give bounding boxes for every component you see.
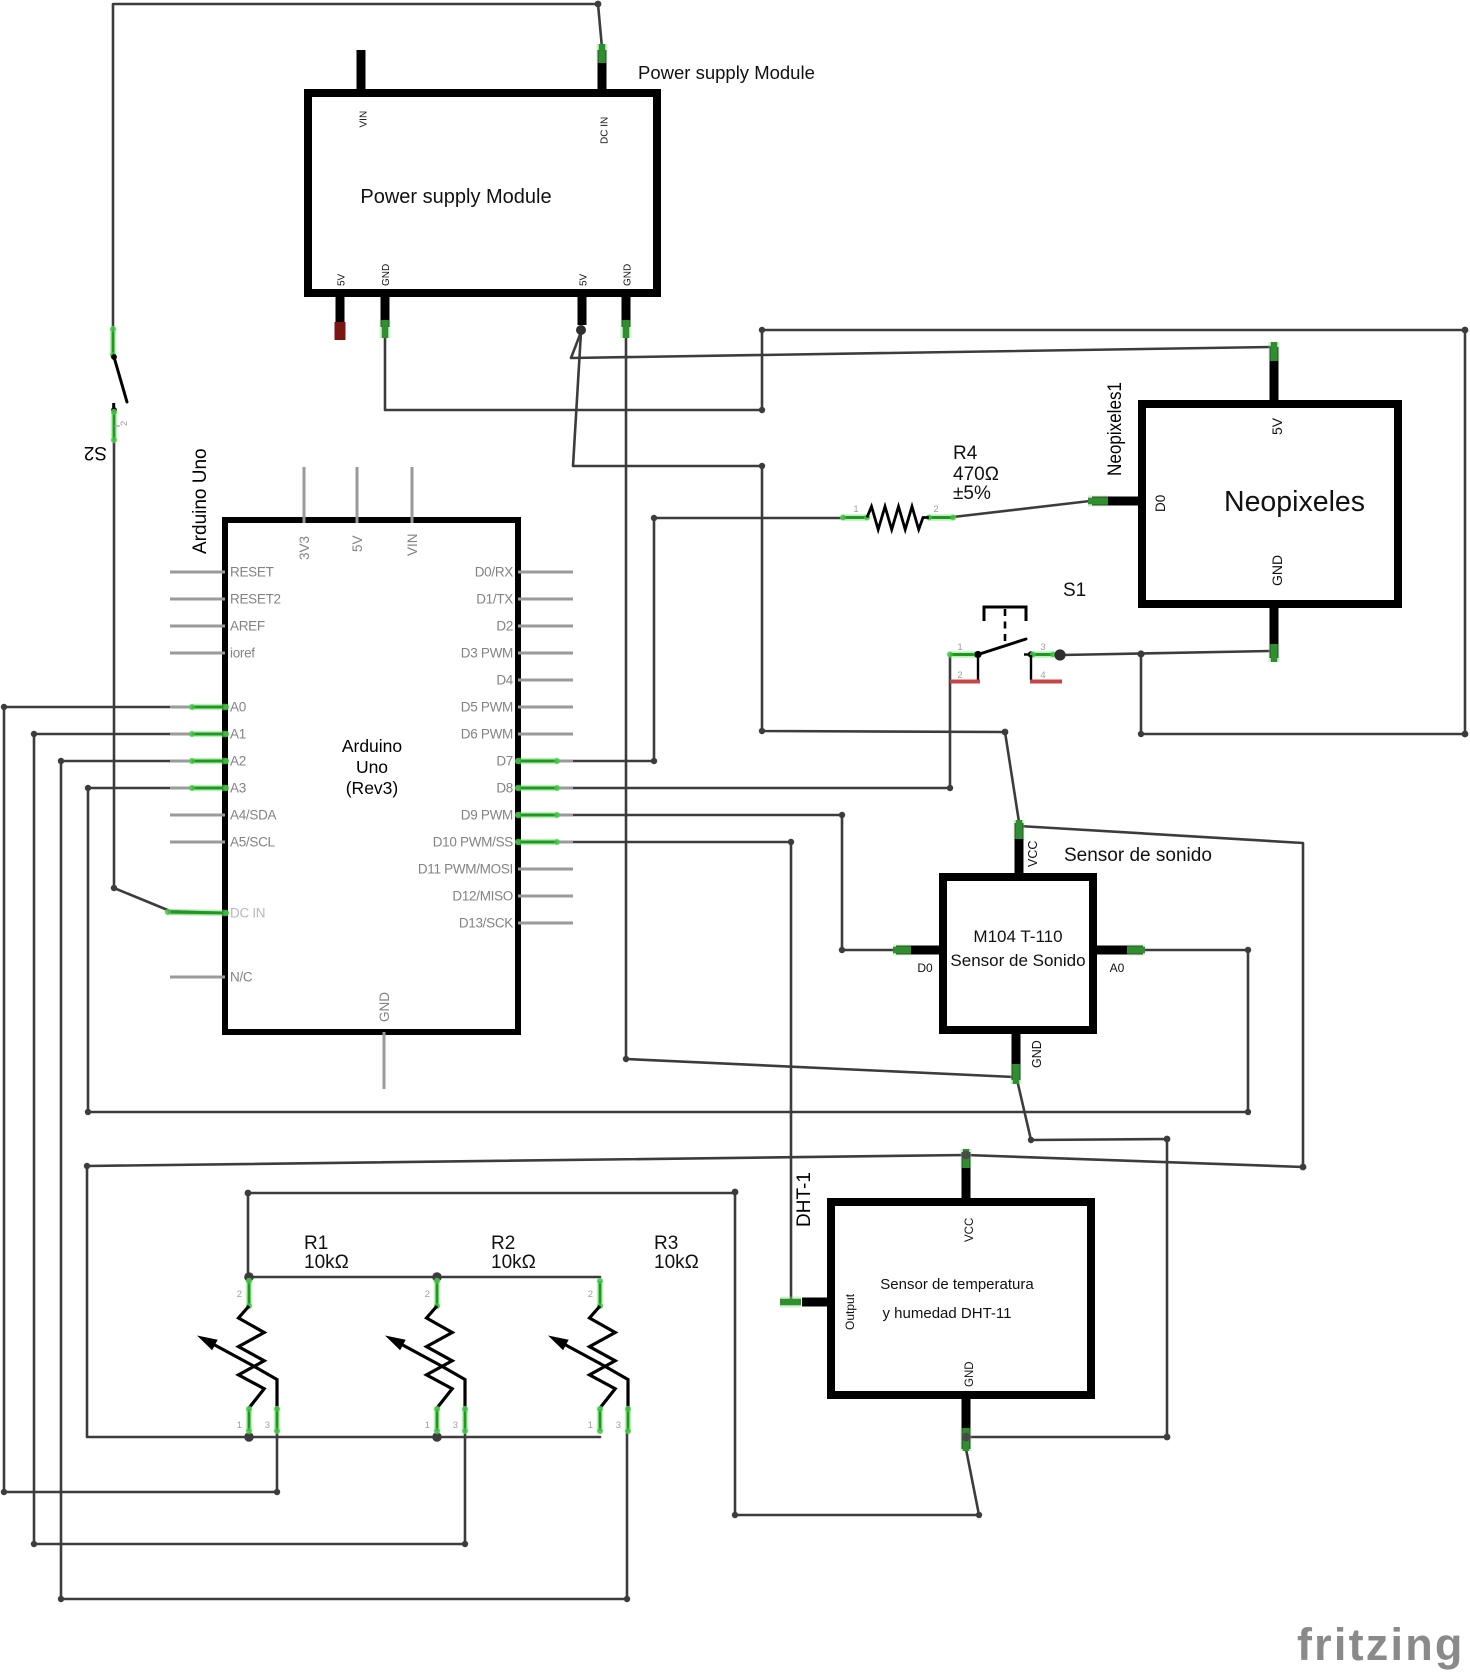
svg-text:A3: A3 [230,781,246,796]
connector R4 pin1 [840,515,870,521]
sound sensor module [943,877,1093,1030]
junction DHT VCC [962,1151,971,1160]
junction sGND bend c [1164,1434,1171,1441]
S2 pivot 2 [111,407,117,413]
junction A2 bend c [624,1596,630,1602]
potentiometer R3 zigzag [590,1306,616,1408]
connector A3 [189,785,229,791]
wire DCIN drop [598,4,602,48]
svg-text:D12/MISO: D12/MISO [452,889,513,904]
svg-text:1: 1 [237,1420,242,1431]
potentiometer R1 zigzag [239,1306,265,1408]
connector D10 [515,839,560,845]
pin A4/SDA stub of U1 [170,814,225,817]
svg-text:GND: GND [377,992,392,1022]
svg-text:D0: D0 [917,961,933,975]
pin D13/SCK stub of U1 [518,922,573,925]
svg-text:5V: 5V [337,273,348,286]
svg-text:470Ω: 470Ω [953,464,999,485]
junction A3 bend c [1245,1109,1251,1115]
svg-text:A2: A2 [230,754,246,769]
connector sensor GND [1011,1064,1022,1084]
connector neo D0 [1088,496,1108,507]
S2 pivot 1 [111,354,117,360]
pin D4 stub of U1 [518,679,573,682]
connector S2 pin2 [111,409,117,443]
connector sensor D0 [893,945,911,956]
connector R1 pin1 [246,1406,252,1434]
svg-text:2: 2 [425,1289,430,1300]
connector R2 pin2 [434,1278,440,1309]
S1 pin3 terminal [1054,649,1065,660]
junction dGND bend c [732,1189,739,1196]
pin 5V right of PS1 [578,289,587,325]
S1 actuator dashed link [1004,609,1007,647]
junction S1 net [1137,650,1144,657]
svg-text:3: 3 [453,1420,458,1431]
svg-text:Power supply Module: Power supply Module [360,186,551,208]
junction VCC rail bend a [1300,1164,1307,1171]
svg-text:A0: A0 [1110,961,1125,975]
svg-text:R4: R4 [953,443,978,464]
connector GND right green [621,320,632,338]
wire power GND to Neopixeles GND [385,330,1465,734]
svg-text:±5%: ±5% [953,483,991,504]
connector R1 pin2 [246,1278,252,1309]
junction DHT GND [962,1433,971,1442]
svg-text:3: 3 [1040,642,1045,653]
junction VCC rail bend b [84,1163,90,1169]
wire S1 pin3 to Neopixeles GND [1062,651,1270,655]
switch S2 lever [114,357,127,402]
connector neo 5V [1269,342,1280,361]
pin D0/RX stub of U1 [518,571,573,574]
connector D9 [515,812,560,818]
svg-text:3: 3 [265,1420,270,1431]
connector A0 [189,704,229,710]
pin RESET2 stub of U1 [170,598,225,601]
pin GND right of PS1 [622,289,631,327]
wire top loop DCIN to S2 [113,4,598,330]
svg-text:D1/TX: D1/TX [476,592,513,607]
wire sensor VCC to pots rail [87,826,1303,1437]
svg-text:Arduino Uno: Arduino Uno [190,448,211,554]
connector R3 pin1 [597,1406,603,1434]
connector DHT VCC [961,1149,972,1168]
svg-text:Uno: Uno [356,757,388,777]
svg-text:VCC: VCC [964,1218,976,1242]
svg-text:10kΩ: 10kΩ [654,1252,699,1273]
connector DHT GND [961,1428,972,1451]
svg-text:Sensor de Sonido: Sensor de Sonido [950,951,1085,970]
svg-text:D5 PWM: D5 PWM [461,700,513,715]
svg-text:VIN: VIN [359,111,370,128]
svg-text:Arduino: Arduino [342,736,402,756]
svg-text:4: 4 [1040,670,1045,681]
pin 5V top stub of U1 [356,467,359,523]
wire R4 to Neopixeles D0 [953,501,1090,517]
svg-text:10kΩ: 10kΩ [304,1252,349,1273]
junction R2 pin2 [432,1272,442,1282]
connector 5V left unconnected red [335,322,346,340]
svg-text:Sensor de temperatura: Sensor de temperatura [880,1276,1034,1293]
S1 pin3 tick [1024,653,1031,655]
svg-text:(Rev3): (Rev3) [346,778,399,798]
junction GND bend b [759,327,765,333]
junction A0 bend a [1,704,7,710]
junction GND bend d [1462,731,1469,738]
junction A2 bend b [58,1596,64,1602]
svg-text:R3: R3 [654,1233,678,1254]
svg-text:D13/SCK: D13/SCK [459,916,513,931]
S1 pivot [974,651,981,658]
svg-text:GND: GND [1030,1040,1044,1068]
svg-text:D0: D0 [1153,495,1168,512]
connector A2 [189,758,229,764]
svg-text:Neopixeles1: Neopixeles1 [1105,382,1126,476]
junction A1 bend a [31,731,37,737]
junction 5V bend c [1002,729,1009,736]
connector neo GND [1269,644,1280,662]
switch S2 pin2 stub [112,403,115,410]
svg-text:A5/SCL: A5/SCL [230,835,276,850]
connector DC IN green [597,44,608,63]
svg-text:R1: R1 [304,1233,328,1254]
junction 5V pin [576,325,586,335]
svg-text:10kΩ: 10kΩ [491,1252,536,1273]
wire sensor GND to DHT GND [968,1084,1167,1437]
pin 5V of neopixeles [1270,347,1279,408]
pin D9 PWM stub of U1 [518,814,573,817]
svg-text:5V: 5V [579,273,590,286]
connector R1 pin3 [274,1406,280,1434]
junction A0 bend c [274,1489,280,1495]
junction DHT GND dot [962,1433,971,1442]
svg-text:2: 2 [933,504,938,515]
pin VCC of sensor [1015,823,1024,881]
junction R1 pin2 [244,1272,254,1282]
svg-text:ioref: ioref [230,646,255,661]
svg-text:D0/RX: D0/RX [475,565,514,580]
pin D8 stub of U1 [518,787,573,790]
junction A1 bend b [31,1541,37,1547]
S2 pin2 tick [114,425,120,427]
S1 pin2 red bar [950,680,980,684]
junction DHT VCC dot [962,1151,971,1160]
svg-text:5V: 5V [350,535,365,552]
connector R4 pin2 [926,515,956,521]
wire S2 to Arduino DC IN [114,441,224,913]
neopixeles module [1142,404,1398,604]
pin A3 stub of U1 [170,787,225,790]
potentiometer R2 zigzag [427,1306,453,1408]
pin ioref stub of U1 [170,652,225,655]
pin D10 PWM/SS stub of U1 [518,841,573,844]
junction R2 pin1 [432,1432,442,1442]
S1 pin2 stub [977,655,979,680]
pin A2 stub of U1 [170,760,225,763]
junction D9 bend a [839,812,845,818]
svg-text:2: 2 [588,1289,593,1300]
potentiometer R1 wiper [215,1345,277,1409]
svg-text:5V: 5V [1269,417,1285,435]
pin DC IN stub of U1 [170,912,225,915]
wire D9 to sensor D0 [518,815,895,950]
svg-text:3: 3 [616,1420,621,1431]
pin D7 stub of U1 [518,760,573,763]
svg-text:3V3: 3V3 [297,536,312,560]
pin D0 of sensor [896,946,947,955]
svg-text:D8: D8 [496,781,513,796]
junction D9 bend b [839,947,845,953]
svg-text:GND: GND [964,1361,976,1387]
junction sGND bend b [1164,1136,1171,1143]
junction GND2 bend [623,1056,629,1062]
junction GND bend c [1462,327,1469,334]
connector S1 pin1 [947,652,979,658]
pin D3 PWM stub of U1 [518,652,573,655]
wire 5V to sensor VCC [573,332,1019,822]
wire D8 to S1 pin1 [518,656,950,788]
junction S2 wire bend [111,885,117,891]
pin AREF stub of U1 [170,625,225,628]
svg-text:M104 T-110: M104 T-110 [973,927,1062,946]
power supply module PS1 [308,93,657,293]
wire DHT GND to pots rail [248,1193,979,1515]
junction sGND bend a [1028,1137,1034,1143]
connector R2 pin3 [462,1406,468,1434]
svg-text:DC IN: DC IN [230,906,265,921]
junction top right [595,1,602,8]
arduino uno U1 [225,520,518,1032]
potentiometer R2 wiper arrow [385,1336,406,1351]
pin VIN top stub of U1 [411,467,414,523]
svg-text:S1: S1 [1063,580,1086,601]
svg-text:1: 1 [957,642,962,653]
svg-text:GND: GND [623,264,634,286]
junction dGND bend a [976,1512,982,1518]
connector DC IN [165,909,229,916]
svg-text:2: 2 [237,1289,242,1300]
junction R1 pin1 [244,1432,254,1442]
svg-text:D10 PWM/SS: D10 PWM/SS [433,835,514,850]
junction GND bend a [759,407,765,413]
svg-text:DHT-1: DHT-1 [794,1172,815,1227]
svg-text:A1: A1 [230,727,246,742]
junction D10 bend [788,839,794,845]
pin GND of DHT [962,1391,971,1449]
connector S2 pin1 [110,326,116,358]
resistor R4 zigzag [867,507,929,530]
pin GND left of PS1 [381,289,390,327]
potentiometer R3 wiper arrow [548,1336,569,1351]
junction GND bend e [1138,731,1144,737]
junction 5V bend b [759,728,765,734]
junction A3 bend d [1245,947,1251,953]
svg-text:Power supply Module: Power supply Module [638,62,815,83]
DHT11 sensor module [831,1202,1091,1395]
svg-text:A0: A0 [230,700,246,715]
junction A3 bend a [85,785,91,791]
potentiometer R1 wiper arrow [197,1336,218,1351]
svg-text:S2: S2 [84,442,107,463]
svg-text:1: 1 [853,504,858,515]
junction D7 bend a [651,758,657,764]
potentiometer R2 wiper [403,1345,465,1409]
pin VCC of DHT [962,1152,971,1206]
pin D1/TX stub of U1 [518,598,573,601]
pin 5V left of PS1 [336,289,345,324]
svg-text:R2: R2 [491,1233,515,1254]
svg-text:RESET2: RESET2 [230,592,281,607]
svg-text:A4/SDA: A4/SDA [230,808,277,823]
wire A2 to R3 pin3 [61,761,627,1599]
junction dGND bend d [245,1190,252,1197]
pin Output of DHT [802,1298,835,1307]
pin A5/SCL stub of U1 [170,841,225,844]
junction 5V bend a [759,463,765,469]
pin GND of sensor [1012,1026,1021,1080]
S1 pin4 red bar [1030,680,1062,684]
pin D5 PWM stub of U1 [518,706,573,709]
connector A1 [189,731,229,737]
pin D11 PWM/MOSI stub of U1 [518,868,573,871]
wire power GND2 to sensor GND [626,338,1014,1077]
wire A1 to R2 pin3 [34,734,465,1544]
svg-text:D11 PWM/MOSI: D11 PWM/MOSI [418,862,513,877]
pin DC IN of PS1 [598,50,607,97]
svg-text:2: 2 [957,670,962,681]
pin GND bottom stub of U1 [383,1032,386,1089]
pin N/C stub of U1 [170,976,225,979]
svg-text:AREF: AREF [230,619,265,634]
wire D7 to R4 [518,518,845,761]
connector S1 pin3 [1030,652,1056,658]
connector R2 pin1 [434,1406,440,1434]
connector D7 [515,758,560,764]
connector R3 pin2 [597,1278,603,1309]
wire A0 to R1 pin3 [4,707,277,1492]
pin 3V3 top stub of U1 [303,467,306,523]
junction dGND bend b [732,1512,738,1518]
svg-text:RESET: RESET [230,565,274,580]
wire 5V to Neopixeles 5V [571,332,1271,358]
junction D8 bend [947,785,953,791]
svg-text:N/C: N/C [230,970,253,985]
svg-text:D2: D2 [496,619,513,634]
svg-text:VCC: VCC [1026,841,1040,867]
svg-text:D9 PWM: D9 PWM [461,808,513,823]
pin D6 PWM stub of U1 [518,733,573,736]
connector sensor VCC [1014,820,1025,839]
pin D0 of neopixeles [1092,497,1146,506]
pin D2 stub of U1 [518,625,573,628]
svg-text:Output: Output [843,1293,857,1330]
svg-text:GND: GND [1269,555,1285,586]
svg-text:D6 PWM: D6 PWM [461,727,513,742]
svg-text:2: 2 [119,421,130,426]
svg-text:Sensor de sonido: Sensor de sonido [1064,845,1212,866]
junction A1 bend c [462,1541,468,1547]
S1 pin4 stub [1030,655,1032,680]
pin GND of neopixeles [1270,600,1279,658]
junction A0 bend b [1,1489,7,1495]
potentiometer R3 wiper [566,1345,628,1409]
connector R3 pin3 [625,1406,631,1434]
svg-text:y humedad DHT-11: y humedad DHT-11 [883,1305,1012,1322]
svg-text:D3 PWM: D3 PWM [461,646,513,661]
pin A0 stub of U1 [170,706,225,709]
junction A3 bend b [85,1109,91,1115]
wire A3 to sensor A0 [88,788,1248,1112]
S1 pin3 pivot [1028,651,1034,657]
junction A2 bend a [58,758,64,764]
wire D10 to DHT Output [518,842,791,1300]
S1 actuator bracket [984,607,1026,621]
svg-text:D7: D7 [496,754,513,769]
pin D12/MISO stub of U1 [518,895,573,898]
connector D8 [515,785,560,791]
connector GND left green [380,320,391,338]
svg-text:1: 1 [425,1420,430,1431]
svg-text:VIN: VIN [405,533,420,556]
pin VIN of PS1 [357,50,366,97]
svg-text:Neopixeles: Neopixeles [1224,486,1365,518]
connector sensor A0 [1127,945,1145,956]
svg-text:fritzing: fritzing [1297,1619,1465,1670]
switch S1 lever [978,639,1026,655]
pin A1 stub of U1 [170,733,225,736]
junction D7 bend b [651,515,657,521]
svg-text:DC IN: DC IN [600,117,611,144]
pin RESET stub of U1 [170,571,225,574]
pin A0 of sensor [1089,946,1143,955]
svg-text:D4: D4 [496,673,513,688]
svg-text:GND: GND [381,264,392,286]
connector DHT Output [780,1297,801,1308]
svg-text:1: 1 [588,1420,593,1431]
